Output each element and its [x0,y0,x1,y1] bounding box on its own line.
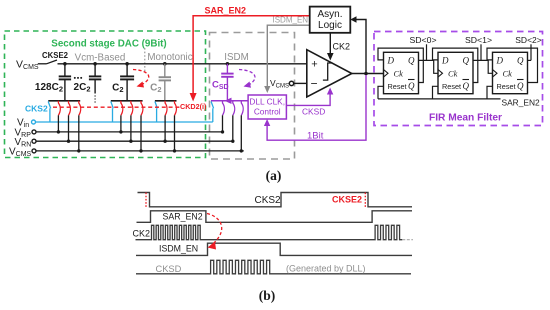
switch group4 to VRN [233,101,235,116]
red dashed curl arrow at C2 [133,70,149,86]
svg-text:Q: Q [408,81,415,91]
svg-text:DLL CLK,: DLL CLK, [249,97,285,107]
FF2 Q wire [528,59,532,61]
VRN rail [36,140,234,142]
FF1 clock triangle [438,70,443,78]
svg-text:D: D [496,55,504,65]
CKS2 switch group2 (cyan) [111,102,114,109]
CKS2 switch group4 (cyan) [211,102,214,109]
FF0 feedback wire Qbar to D [378,48,423,82]
CK2 tail segment (faint) [402,239,413,241]
second stage DAC green dashed box [5,31,206,158]
CKS2 waveform row1 [138,193,413,207]
svg-text:ISDM: ISDM [224,52,249,63]
switch group1 to VRP [58,101,60,116]
svg-text:(Generated by DLL): (Generated by DLL) [286,264,366,274]
dots between caps [74,77,76,79]
red dotted marker at CKSE2 fall [364,193,366,208]
CKS2 switch group3 (cyan) [155,102,158,109]
FF1 feedback wire Qbar to D [433,48,478,82]
CK2 waveform row3 [136,225,403,239]
CK2 wire from Asyn Logic [329,33,331,55]
output node dot [364,72,368,76]
FF2 clock triangle [493,70,498,78]
svg-text:SD<0>: SD<0> [409,35,436,45]
comparator U1 [307,50,352,97]
ISDM_EN waveform row4 [136,243,412,255]
svg-text:Q: Q [408,55,415,65]
svg-text:Ck: Ck [394,68,404,78]
FF1 Q wire to next Ck [473,60,493,73]
svg-text:Q: Q [463,81,470,91]
svg-text:SAR_EN2: SAR_EN2 [502,98,541,108]
capacitor 128C2 [64,64,66,77]
SD tap FF0 [426,44,428,60]
FF0 reset wire [378,86,384,99]
CKS2 switch group1 (cyan) [48,102,51,109]
FF2 reset wire [487,86,493,99]
svg-text:Q: Q [463,55,470,65]
svg-text:ISDM_EN: ISDM_EN [273,16,309,25]
switch group1 to VRN [69,101,71,116]
svg-text:(a): (a) [266,168,282,183]
svg-text:CKD2(i): CKD2(i) [180,102,207,111]
FF2 feedback wire Qbar to D [487,48,538,82]
rail junction dot x=227.4 [226,62,230,66]
purple dashed curl arrow at CSD [239,70,255,86]
svg-text:SAR_EN2: SAR_EN2 [205,6,247,16]
svg-text:Logic: Logic [318,20,342,31]
svg-text:CKSD: CKSD [302,107,325,117]
CKSE2 switch [38,63,47,65]
red dashed arc SAR_EN2 fall to ISDM_EN rise [207,214,222,246]
flip-flop FF0 box [384,52,419,93]
elision dots under 2C2 [94,95,96,97]
comparator step symbol [323,63,333,80]
capacitor 2C2 [94,64,96,77]
svg-text:Ck: Ck [503,68,513,78]
capacitor C2 (Monotonic, grey) [164,64,166,77]
VRP rail [36,131,224,133]
svg-text:C2: C2 [112,83,123,95]
svg-text:CK2: CK2 [333,42,351,52]
SD tap FF2 [530,44,532,60]
capacitor CSD (ISDM, purple) [226,64,228,74]
switch group4 to VCMS [241,101,243,116]
CKSD waveform row5 [136,260,411,274]
svg-text:2C2: 2C2 [74,82,91,94]
SAR_EN2 waveform row2 [137,211,413,223]
svg-text:(b): (b) [259,288,276,303]
top plate rail [58,63,307,65]
svg-text:Control: Control [254,107,281,117]
svg-text:CKS2: CKS2 [255,195,282,206]
CKSD wire DLL to comparator [286,94,330,106]
svg-text:+: + [311,59,317,71]
svg-text:CKSE2: CKSE2 [332,195,362,205]
reset chain wire SAR_EN2 [378,98,501,100]
svg-text:FIR Mean Filter: FIR Mean Filter [429,113,502,124]
svg-text:−: − [310,77,317,91]
switch group2 to VCMS [141,101,143,116]
svg-text:CK2: CK2 [133,229,151,239]
SD tap FF1 [480,44,482,60]
switch group4 to VRP [223,101,225,116]
comparator output wire [352,73,384,75]
rail junction dot x=64.9 [63,62,67,66]
rail junction dot x=95.1 [93,62,97,66]
capacitor C2 (Vcm-Based) [126,64,128,77]
bottom plate bar group2 [111,100,143,102]
switch group3 to VCMS [175,101,177,116]
svg-text:CKS2: CKS2 [25,104,48,114]
svg-text:128C2: 128C2 [35,82,63,94]
rail junction dot x=127.1 [125,62,129,66]
switch group2 to VRN [131,101,133,116]
flip-flop FF1 box [438,52,473,93]
svg-text:Reset: Reset [388,82,407,91]
svg-text:Vcm-Based: Vcm-Based [75,53,126,64]
section separator dotted [144,48,146,73]
svg-text:Monotonic: Monotonic [147,52,192,63]
CKD2 dashed control line [53,106,181,108]
DLL CLK Control box [248,95,286,119]
comparator output feedback wire to Asyn Logic [355,20,366,74]
bottom plate bar group3 [155,100,177,102]
svg-text:Asyn.: Asyn. [317,9,342,20]
flip-flop FF2 box [493,52,528,93]
red dotted marker at CKS2 fall [145,193,147,208]
Vin rail (cyan) [36,121,213,123]
VCMS rail [36,150,244,152]
FIR Mean Filter purple dashed box [374,32,543,126]
svg-text:C2: C2 [150,83,161,95]
switch group2 to VRP [121,101,123,116]
FF0 clock triangle [384,70,389,78]
svg-text:ISDM_EN: ISDM_EN [159,244,198,254]
svg-text:CKSD: CKSD [156,264,182,274]
1Bit feedback wire [267,75,366,140]
purple arrowhead on CSD bar wire [225,98,232,104]
ISDM grey dashed box [210,33,295,160]
ISDM_EN wire [267,25,309,87]
FF0 Q wire to next Ck [419,60,439,73]
svg-text:CKSE2: CKSE2 [42,51,69,60]
svg-text:SAR_EN2: SAR_EN2 [163,212,203,222]
svg-text:Second stage DAC (9Bit): Second stage DAC (9Bit) [51,39,166,50]
switch group1 to VCMS [79,101,81,116]
switch group3 to VRN [165,101,167,116]
svg-text:SD<2>: SD<2> [515,35,541,45]
bottom plate bar group4 (CSD, purple from DLL) [211,100,248,102]
svg-text:1Bit: 1Bit [307,131,324,142]
SAR_EN2 wire [193,16,310,95]
svg-text:SD<1>: SD<1> [465,35,492,45]
svg-text:Q: Q [517,55,524,65]
svg-text:D: D [441,55,449,65]
svg-text:Reset: Reset [497,82,516,91]
svg-text:D: D [387,55,395,65]
rail junction dot x=164.8 [163,62,167,66]
Asyn. Logic box U_asyn [310,7,351,33]
wire VCMS to comparator minus input [294,82,307,84]
FF1 reset wire [433,86,439,99]
svg-text:Reset: Reset [442,82,461,91]
svg-text:Ck: Ck [448,68,458,78]
bottom plate bar group1 [48,100,80,102]
svg-text:Q: Q [517,81,524,91]
